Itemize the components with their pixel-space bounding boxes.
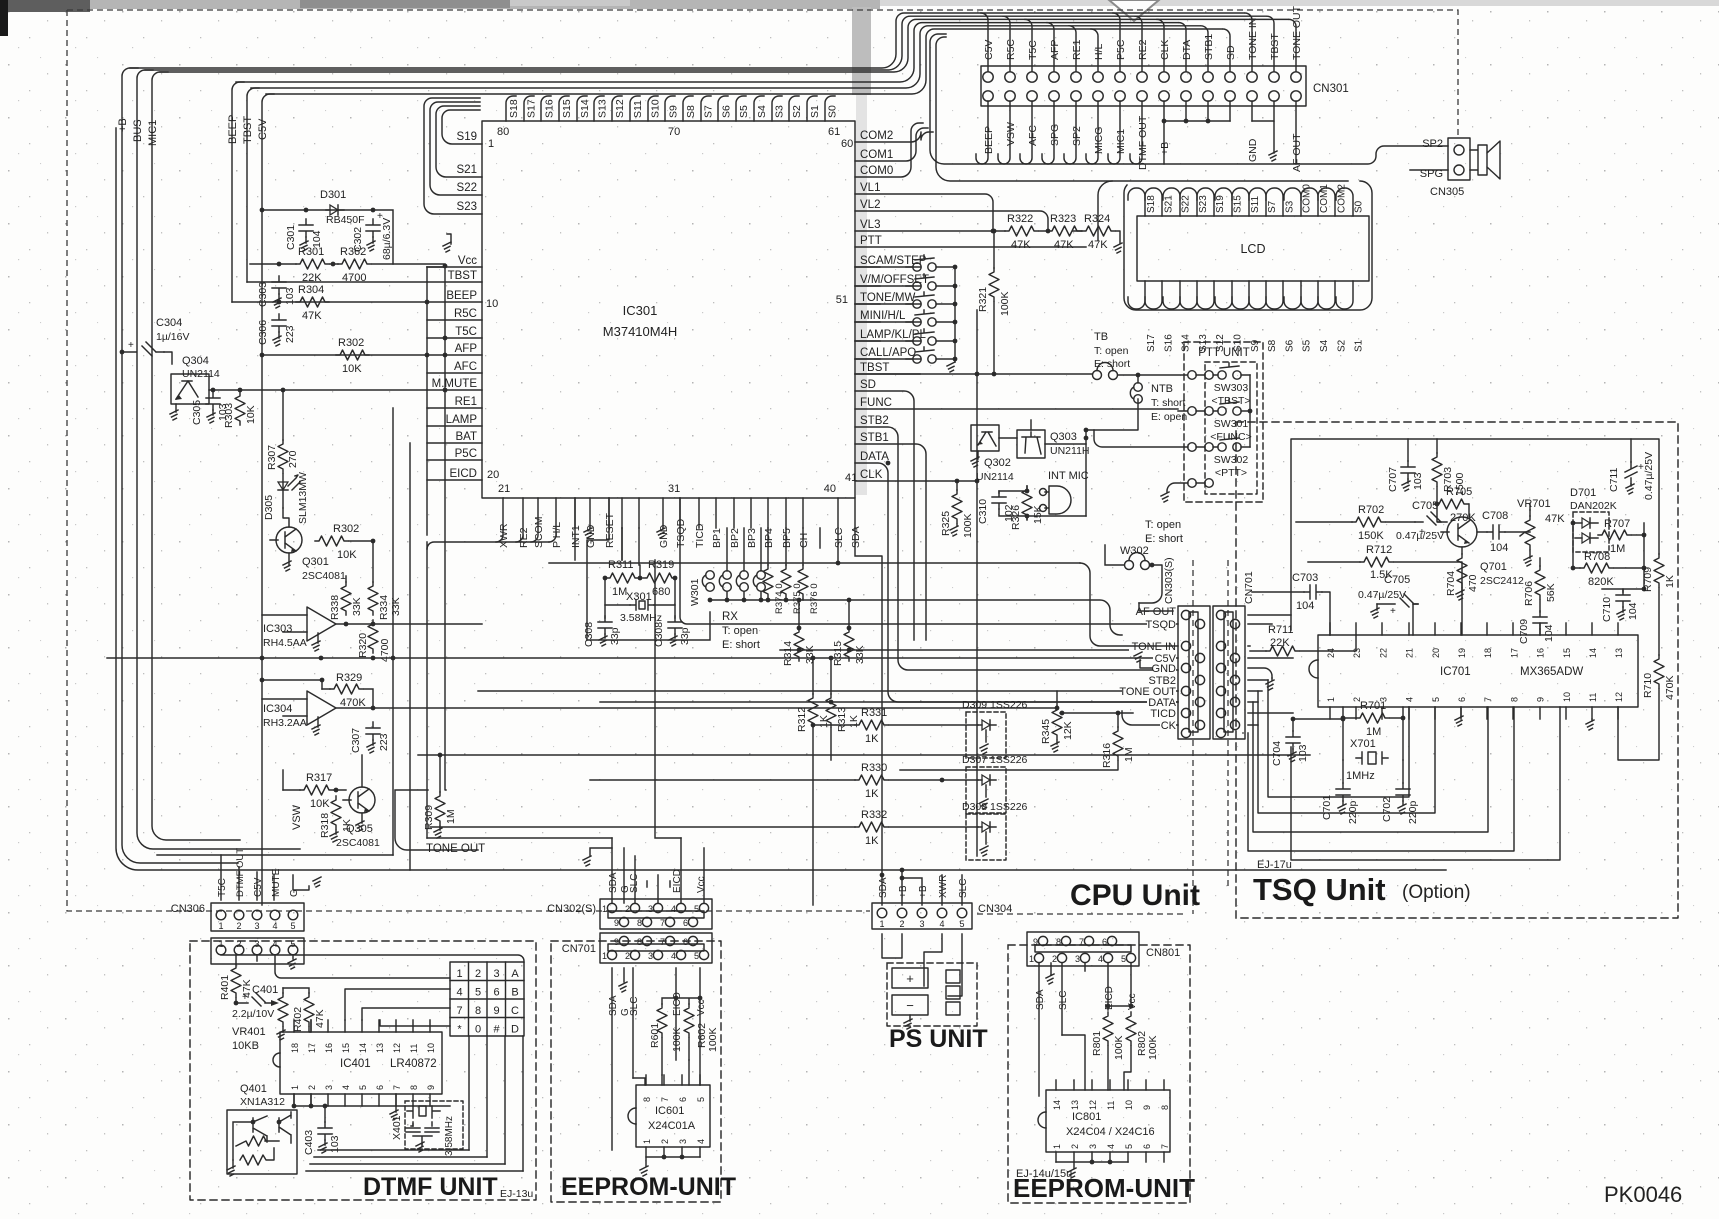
wire keypad rows to IC401 <box>345 989 450 1026</box>
svg-text:3: 3 <box>254 939 259 949</box>
svg-text:1: 1 <box>1052 1144 1062 1149</box>
wire TSQ top rail <box>1291 439 1659 630</box>
svg-text:1K: 1K <box>848 715 860 728</box>
svg-text:CN301: CN301 <box>1313 83 1349 95</box>
svg-text:7: 7 <box>660 937 665 947</box>
ground under Q301 <box>288 553 290 565</box>
wire R329 ends <box>322 689 373 708</box>
diode D701 dashed box <box>1573 512 1609 552</box>
resistor R331 <box>855 720 888 730</box>
svg-text:FUNC: FUNC <box>860 397 892 409</box>
svg-text:2: 2 <box>625 951 630 961</box>
svg-text:S1: S1 <box>1354 339 1365 352</box>
svg-text:7: 7 <box>660 918 665 928</box>
svg-text:100K: 100K <box>1147 1035 1159 1060</box>
wire lamp branch R307 <box>282 390 284 440</box>
ground under C702 <box>1398 804 1406 814</box>
wire bus MIC1 <box>152 72 240 840</box>
svg-text:SLC: SLC <box>629 997 640 1016</box>
diode D305 LED <box>278 474 288 508</box>
svg-text:6: 6 <box>1142 1144 1152 1149</box>
svg-text:GND: GND <box>1152 663 1177 675</box>
svg-text:AFP: AFP <box>1049 40 1061 60</box>
ground near IC301 upper-left <box>447 234 451 244</box>
svg-text:R702: R702 <box>1358 504 1384 516</box>
svg-text:R374 0: R374 0 <box>774 583 785 614</box>
svg-text:33K: 33K <box>390 597 402 616</box>
svg-text:UN2114: UN2114 <box>182 368 220 380</box>
svg-text:S4: S4 <box>756 105 768 118</box>
wire Q302-Q303 <box>999 438 1086 444</box>
svg-text:220p: 220p <box>1407 800 1419 824</box>
svg-text:SDA: SDA <box>878 877 889 898</box>
resistor R302b <box>315 536 348 546</box>
node +B bus under CN301 <box>1164 120 1230 122</box>
node dot R345 <box>1055 706 1060 711</box>
svg-text:CALL/APO: CALL/APO <box>860 347 916 359</box>
svg-text:INT MIC: INT MIC <box>1048 470 1089 482</box>
svg-text:R711: R711 <box>1268 624 1293 636</box>
svg-text:1: 1 <box>879 919 884 929</box>
svg-text:RESET: RESET <box>604 512 616 548</box>
wire R332 row <box>430 826 978 828</box>
svg-text:1M: 1M <box>445 809 457 824</box>
svg-text:PK0046: PK0046 <box>1604 1182 1682 1207</box>
wire TBST row to TB <box>855 373 1092 375</box>
wire C703 ends <box>1252 592 1330 635</box>
ic IC401 pins <box>293 1020 295 1032</box>
svg-text:R321: R321 <box>977 287 989 312</box>
resistor R304 <box>296 297 329 307</box>
svg-text:C5V: C5V <box>983 40 995 60</box>
svg-text:CN302(S): CN302(S) <box>547 903 596 915</box>
ground CN701 pin2 <box>619 982 627 992</box>
ground under Q304 <box>175 404 177 412</box>
svg-text:TONE/MW: TONE/MW <box>860 292 916 304</box>
svg-text:S10: S10 <box>650 99 662 118</box>
svg-text:EICD: EICD <box>450 468 477 480</box>
svg-text:BP4: BP4 <box>763 528 775 548</box>
transistor Q305 <box>349 787 375 813</box>
svg-text:5: 5 <box>696 1097 706 1102</box>
lcd LCD body <box>1137 216 1369 281</box>
svg-text:R712: R712 <box>1366 544 1392 556</box>
svg-text:1MHz: 1MHz <box>1346 770 1375 782</box>
lcd ring wire <box>1124 181 1372 310</box>
resistor R376 <box>798 565 808 598</box>
svg-text:S14: S14 <box>1181 334 1192 352</box>
svg-text:DTMF OUT: DTMF OUT <box>1137 115 1149 170</box>
resistor R323 <box>1048 226 1081 236</box>
connector CN303(S) <box>1178 606 1210 739</box>
capacitor C701 <box>1336 783 1350 801</box>
diode D309 <box>978 720 996 730</box>
transistor Q401 internals <box>233 1116 267 1160</box>
svg-text:C5V: C5V <box>257 118 269 140</box>
svg-text:SDA: SDA <box>1035 989 1046 1010</box>
wire row 870 drops <box>238 866 240 868</box>
wire vertical x977 <box>976 310 978 856</box>
connector CN302(S) <box>600 899 712 929</box>
svg-text:9: 9 <box>1536 697 1546 702</box>
scan artifact fold-mark diamond <box>1109 0 1159 21</box>
resistor R318 <box>331 796 341 829</box>
svg-text:1M: 1M <box>612 586 627 598</box>
svg-text:SDA: SDA <box>850 526 862 548</box>
svg-text:270: 270 <box>287 450 299 468</box>
resistor R712 <box>1360 557 1393 567</box>
svg-text:R303: R303 <box>223 403 235 428</box>
jumper RX2 <box>740 571 749 580</box>
svg-text:R601: R601 <box>649 1023 661 1048</box>
svg-text:Vcc: Vcc <box>696 999 707 1016</box>
resistor R334 <box>368 582 378 615</box>
transistor Q301 <box>276 527 302 553</box>
IC301 bottom pin stubs <box>496 498 503 542</box>
resistor R705 <box>1435 499 1468 509</box>
svg-text:33K: 33K <box>804 645 816 664</box>
svg-text:5: 5 <box>358 1085 368 1090</box>
connector CN306 row2 <box>211 938 304 964</box>
svg-text:470K: 470K <box>1664 675 1676 700</box>
svg-text:<FUNC>: <FUNC> <box>1210 431 1251 443</box>
svg-text:B: B <box>511 987 518 999</box>
svg-text:3: 3 <box>1075 954 1080 964</box>
svg-text:7: 7 <box>1079 937 1084 947</box>
svg-text:R326: R326 <box>1010 505 1022 530</box>
svg-text:Vcc: Vcc <box>458 255 477 267</box>
scan artifact top grey band <box>0 0 880 9</box>
svg-text:2SC4081: 2SC4081 <box>302 570 346 582</box>
resistor R325 <box>952 490 962 523</box>
svg-text:P5C: P5C <box>1115 39 1127 60</box>
wire TSQ loop C <box>1253 702 1488 832</box>
svg-text:S9: S9 <box>667 105 679 118</box>
svg-text:0.47µ/25V: 0.47µ/25V <box>1643 452 1655 500</box>
svg-text:S15: S15 <box>1233 195 1244 213</box>
svg-text:C711: C711 <box>1608 468 1620 492</box>
svg-text:VL1: VL1 <box>860 182 880 194</box>
wire CN701 drops bottom <box>612 968 700 1150</box>
svg-text:1K: 1K <box>865 788 879 800</box>
svg-text:X401: X401 <box>391 1115 403 1140</box>
wire bus BUS <box>137 70 300 849</box>
svg-text:MUTE: MUTE <box>271 868 282 897</box>
svg-text:23: 23 <box>1352 648 1362 658</box>
wire R312 verticals <box>813 658 831 905</box>
svg-text:R309: R309 <box>423 805 435 830</box>
svg-text:IC401: IC401 <box>340 1058 371 1070</box>
resistor R316 <box>1113 727 1123 760</box>
wire IC601 bottom <box>646 1157 700 1166</box>
resistor R315 <box>844 628 854 661</box>
svg-text:4: 4 <box>1106 1144 1116 1149</box>
wire TSQ loop D <box>1243 707 1514 851</box>
svg-text:8: 8 <box>1509 697 1519 702</box>
svg-text:R307: R307 <box>266 445 278 470</box>
svg-text:C702: C702 <box>1381 797 1393 822</box>
wire Q304 collector M.MUTE row <box>209 389 427 391</box>
node dot X301 mid <box>638 576 643 581</box>
svg-text:R301: R301 <box>298 246 324 258</box>
potentiometer VR401 <box>278 993 288 1026</box>
svg-text:<TBST>: <TBST> <box>1211 395 1250 407</box>
svg-text:TB: TB <box>1094 331 1108 343</box>
ground under Q302 <box>977 451 979 459</box>
svg-text:AF OUT: AF OUT <box>1136 606 1177 618</box>
svg-text:22: 22 <box>1378 648 1388 658</box>
capacitor C702 <box>1396 783 1410 801</box>
svg-text:S6: S6 <box>1284 339 1295 352</box>
svg-text:104: 104 <box>1543 624 1555 642</box>
svg-text:W301: W301 <box>689 578 701 606</box>
capacitor C302 electrolytic <box>366 219 380 237</box>
svg-text:1K: 1K <box>865 733 879 745</box>
svg-text:CN305: CN305 <box>1430 186 1464 198</box>
keypad grid <box>450 962 524 1036</box>
capacitor C307 <box>366 722 380 740</box>
wire SPG to CN305 <box>1410 169 1448 171</box>
svg-text:CN306: CN306 <box>171 903 205 915</box>
svg-text:BP3: BP3 <box>746 528 758 548</box>
svg-text:47K: 47K <box>1054 239 1074 251</box>
svg-text:16: 16 <box>324 1043 334 1053</box>
svg-text:R302: R302 <box>338 337 364 349</box>
svg-text:4: 4 <box>272 939 277 949</box>
wire mic nets <box>999 486 1086 520</box>
ground under C711 <box>1626 484 1634 494</box>
svg-text:22K: 22K <box>1270 637 1290 649</box>
svg-text:+: + <box>242 992 248 1003</box>
svg-text:+B: +B <box>898 885 909 898</box>
svg-text:R338: R338 <box>329 595 341 620</box>
resistor R362 <box>338 259 371 269</box>
EEPROM-UNIT 1 dashed box <box>551 941 721 1202</box>
wire IC401 pin7 gnd <box>395 1094 397 1112</box>
svg-text:4: 4 <box>272 921 277 931</box>
svg-text:1: 1 <box>602 951 607 961</box>
svg-text:TBST: TBST <box>1269 33 1281 60</box>
svg-text:EEPROM-UNIT: EEPROM-UNIT <box>1013 1173 1195 1203</box>
svg-text:UN2114: UN2114 <box>976 471 1014 483</box>
svg-text:DTMF UNIT: DTMF UNIT <box>363 1173 498 1201</box>
svg-text:100K: 100K <box>671 1027 683 1052</box>
wire TBST row <box>247 281 427 283</box>
svg-text:8: 8 <box>637 918 642 928</box>
svg-text:10: 10 <box>1124 1100 1134 1110</box>
svg-text:1M: 1M <box>1610 543 1625 555</box>
svg-text:9: 9 <box>1142 1105 1152 1110</box>
svg-text:103: 103 <box>1412 472 1424 490</box>
svg-text:BP1: BP1 <box>711 528 723 548</box>
wire VR701 top <box>1529 504 1531 510</box>
svg-text:SLC: SLC <box>1058 991 1069 1010</box>
svg-text:820K: 820K <box>1588 576 1614 588</box>
capacitor C303 <box>272 276 286 294</box>
resistor R338 <box>341 582 351 615</box>
capacitor C308b <box>668 616 682 634</box>
svg-text:6: 6 <box>1102 937 1107 947</box>
wire keypad cols down <box>469 1036 523 1171</box>
svg-text:LCD: LCD <box>1240 242 1265 256</box>
connector CN301 body <box>981 66 1306 106</box>
svg-text:M.MUTE: M.MUTE <box>432 378 478 390</box>
svg-text:AFC: AFC <box>1027 125 1039 146</box>
diode D301 <box>326 205 344 215</box>
svg-text:SDA: SDA <box>608 872 619 893</box>
svg-text:EEPROM-UNIT: EEPROM-UNIT <box>561 1173 736 1201</box>
scan artifact left black bar <box>0 0 8 36</box>
svg-text:PTT UNIT: PTT UNIT <box>1198 347 1250 359</box>
resistor R332 <box>855 822 888 832</box>
scan artifact grey blob <box>852 7 871 95</box>
svg-text:C303: C303 <box>257 282 269 307</box>
svg-text:SD: SD <box>860 379 876 391</box>
wire CN701 right exits <box>1248 615 1293 725</box>
svg-text:1: 1 <box>456 968 462 980</box>
resistor R321 <box>989 268 999 301</box>
svg-text:15: 15 <box>1562 648 1572 658</box>
crystal X701 <box>1368 752 1376 764</box>
wire IC303 out <box>336 623 482 625</box>
svg-text:BAT: BAT <box>455 431 477 443</box>
svg-text:EICD: EICD <box>672 992 683 1016</box>
svg-text:S1: S1 <box>809 105 821 118</box>
ground under C301 <box>305 237 307 243</box>
svg-text:47K: 47K <box>314 1009 326 1028</box>
svg-text:0: 0 <box>475 1024 481 1036</box>
svg-text:C701: C701 <box>1321 795 1333 820</box>
svg-text:10K: 10K <box>245 405 257 424</box>
svg-text:1: 1 <box>1029 954 1034 964</box>
svg-text:RE1: RE1 <box>455 396 477 408</box>
svg-text:5: 5 <box>1431 697 1441 702</box>
svg-text:100K: 100K <box>999 291 1011 316</box>
svg-text:+: + <box>1638 462 1644 473</box>
svg-text:R401: R401 <box>219 975 231 1000</box>
ground under IC303 <box>317 633 319 643</box>
svg-text:33K: 33K <box>351 597 363 616</box>
resistor R314 <box>794 628 804 661</box>
svg-text:9: 9 <box>1033 937 1038 947</box>
svg-text:D: D <box>511 1024 519 1036</box>
wire FUNC row <box>855 409 1187 411</box>
svg-text:1K: 1K <box>1664 575 1676 588</box>
svg-text:TONE OUT: TONE OUT <box>1291 5 1303 60</box>
svg-text:Q303: Q303 <box>1050 431 1077 443</box>
diode D701 pair <box>1582 518 1590 543</box>
wire VSW vertical <box>282 770 284 790</box>
svg-text:LR40872: LR40872 <box>390 1058 437 1070</box>
diode D307 dashed box <box>966 767 1006 813</box>
resistor R708 <box>1580 563 1613 573</box>
resistor R601 <box>657 1004 667 1037</box>
wire bus +B <box>122 68 238 863</box>
resistor R320 <box>368 620 378 653</box>
svg-text:SW301: SW301 <box>1214 418 1249 430</box>
wire keypad col returns <box>306 1150 523 1171</box>
svg-text:8: 8 <box>642 1097 652 1102</box>
svg-text:5: 5 <box>475 987 481 999</box>
svg-text:104: 104 <box>1296 600 1314 612</box>
wire C708 ends <box>1477 531 1530 533</box>
svg-text:1: 1 <box>488 138 494 150</box>
resistor R709 <box>1654 554 1664 587</box>
wire C704 top <box>1292 719 1294 731</box>
svg-text:X24C04 / X24C16: X24C04 / X24C16 <box>1066 1126 1155 1138</box>
wire X701 sides <box>1343 760 1403 783</box>
svg-text:104: 104 <box>1627 602 1639 620</box>
svg-text:R325: R325 <box>940 511 952 536</box>
crystal X401 dashed box <box>405 1101 463 1149</box>
svg-text:4: 4 <box>671 904 676 914</box>
svg-text:BEEP: BEEP <box>227 115 239 144</box>
diode D307 <box>978 775 996 785</box>
svg-text:LAMP/KL/PL: LAMP/KL/PL <box>860 329 926 341</box>
svg-text:<PTT>: <PTT> <box>1215 467 1247 479</box>
capacitor C308a <box>598 616 612 634</box>
ground at IC301 bottom pin GND <box>589 527 591 529</box>
capacitor C707 <box>1401 461 1415 479</box>
svg-text:S22: S22 <box>457 182 477 194</box>
node dot C301 <box>304 208 309 213</box>
svg-text:CN701: CN701 <box>1243 571 1255 604</box>
svg-text:VSW: VSW <box>291 804 303 830</box>
wire C709 bottom <box>1539 629 1541 635</box>
svg-text:TONE OUT: TONE OUT <box>426 843 485 855</box>
svg-text:S13: S13 <box>597 99 609 118</box>
jumper NTB <box>1134 383 1143 392</box>
crystal X301 <box>630 600 654 610</box>
wire Q305 collector up <box>361 755 363 787</box>
switch SW302 <box>1188 443 1197 452</box>
svg-text:20: 20 <box>1431 648 1441 658</box>
svg-text:+: + <box>906 971 914 986</box>
svg-text:C703: C703 <box>1292 572 1318 584</box>
svg-text:R322: R322 <box>1007 213 1033 225</box>
svg-text:E: short: E: short <box>1145 533 1183 545</box>
svg-text:13: 13 <box>1614 648 1624 658</box>
wire TSQ C704 row <box>1293 718 1343 720</box>
svg-text:33p: 33p <box>609 627 621 645</box>
ic IC401 LR40872 body <box>280 1032 442 1094</box>
ic IC601 pins <box>645 1075 647 1085</box>
IC301 right pin wires <box>855 132 933 142</box>
svg-text:19: 19 <box>1457 648 1467 658</box>
svg-text:47K: 47K <box>1545 513 1565 525</box>
svg-text:56K: 56K <box>1545 583 1557 602</box>
svg-text:1: 1 <box>290 1085 300 1090</box>
resistor R301 <box>296 259 329 269</box>
svg-text:24: 24 <box>1326 648 1336 658</box>
resistor R313 <box>826 694 836 727</box>
ground under CN301 <box>1252 121 1274 153</box>
wire R338 tops <box>346 541 373 582</box>
jumper TB <box>1093 371 1102 380</box>
wire collector line A to SP2 <box>930 34 1448 164</box>
svg-text:3: 3 <box>324 1085 334 1090</box>
svg-text:R304: R304 <box>298 284 324 296</box>
svg-text:IC701: IC701 <box>1440 666 1471 678</box>
wire row 691 TONE OUT <box>478 690 1178 692</box>
svg-text:SLC: SLC <box>958 879 969 898</box>
svg-text:SW302: SW302 <box>1214 454 1249 466</box>
svg-text:INT1: INT1 <box>570 525 582 548</box>
ic IC701 pins <box>1329 623 1331 635</box>
CPU/TSQ boundary dashed line CN303 <box>1192 560 1194 914</box>
wire BEEP row <box>232 301 427 303</box>
svg-text:S21: S21 <box>1163 195 1174 213</box>
